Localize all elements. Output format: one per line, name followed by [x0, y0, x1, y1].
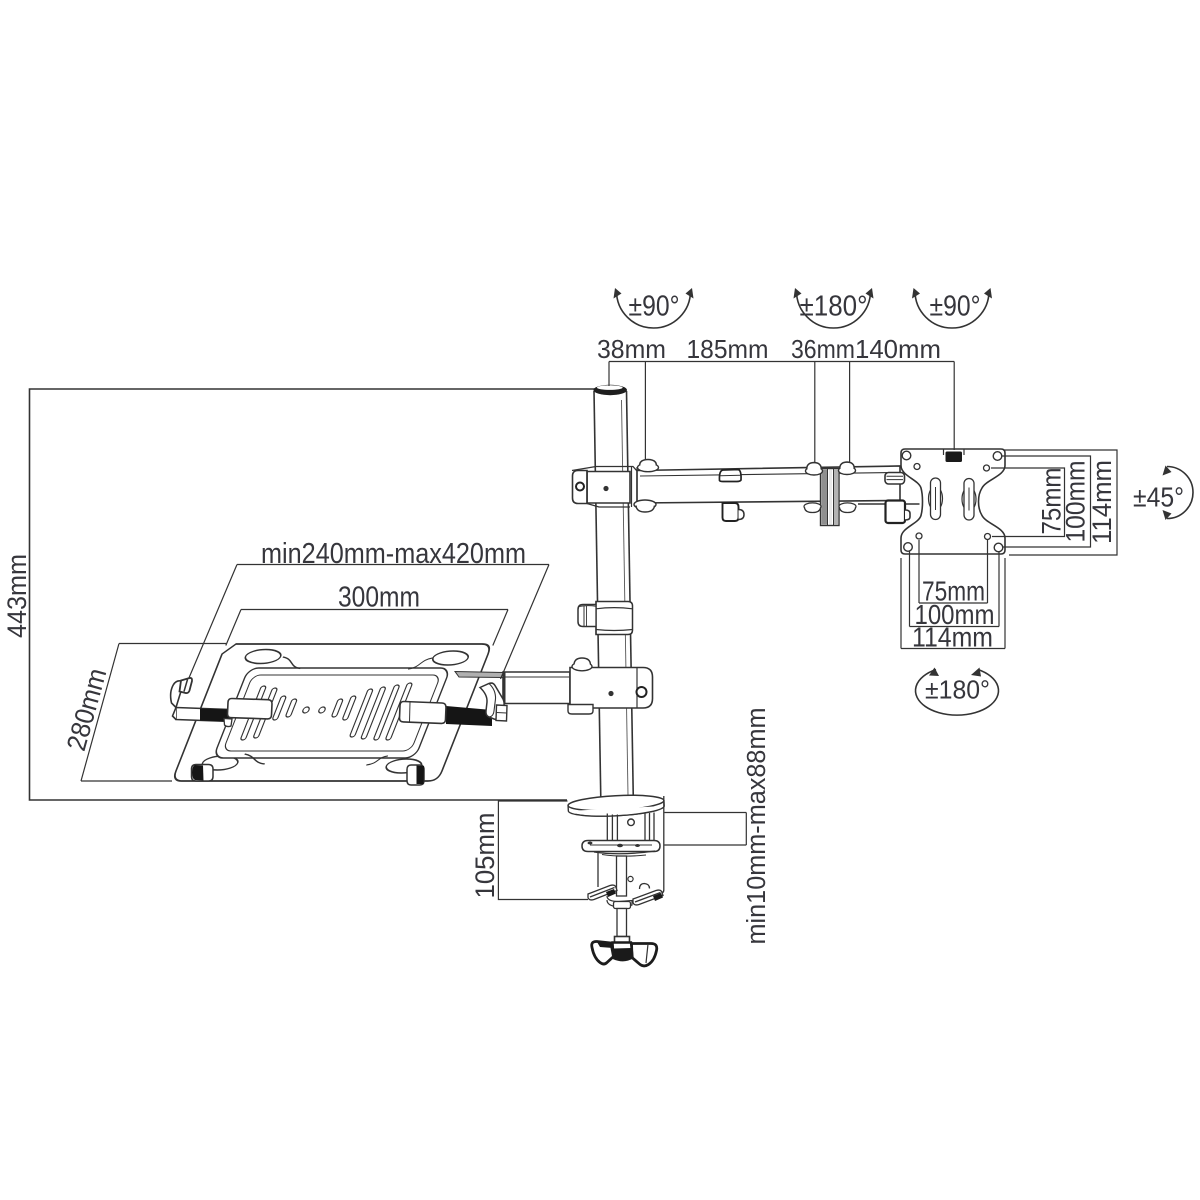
- svg-text:140mm: 140mm: [855, 334, 941, 364]
- svg-text:443mm: 443mm: [2, 554, 32, 638]
- svg-text:±180°: ±180°: [800, 291, 868, 323]
- svg-text:36mm: 36mm: [791, 334, 855, 364]
- svg-text:100mm: 100mm: [1061, 461, 1091, 543]
- svg-text:±90°: ±90°: [629, 291, 680, 323]
- svg-text:185mm: 185mm: [687, 334, 769, 364]
- svg-text:min240mm-max420mm: min240mm-max420mm: [261, 538, 526, 570]
- svg-text:38mm: 38mm: [597, 334, 666, 364]
- svg-text:114mm: 114mm: [912, 622, 993, 653]
- svg-text:±180°: ±180°: [925, 677, 990, 705]
- svg-text:300mm: 300mm: [338, 582, 420, 614]
- svg-text:114mm: 114mm: [1087, 460, 1117, 544]
- svg-text:±90°: ±90°: [930, 291, 981, 323]
- svg-text:105mm: 105mm: [470, 813, 500, 899]
- svg-text:min10mm-max88mm: min10mm-max88mm: [743, 708, 771, 945]
- svg-text:±45°: ±45°: [1133, 482, 1184, 513]
